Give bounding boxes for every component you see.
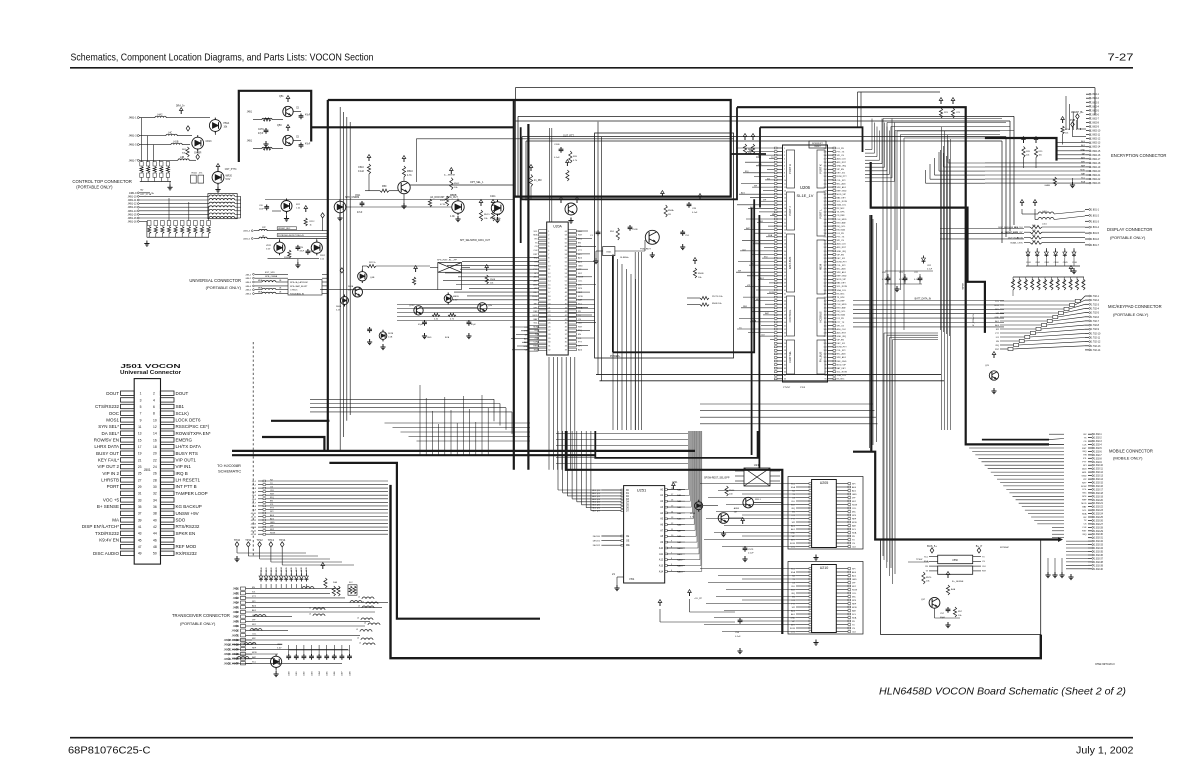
svg-text:120: 120: [824, 290, 827, 292]
svg-text:PGA_RK/T: PGA_RK/T: [640, 248, 651, 251]
svg-text:R202: R202: [320, 255, 326, 257]
svg-text:37: 37: [565, 334, 567, 336]
svg-text:C2N: C2N: [692, 208, 697, 210]
svg-text:MOD: MOD: [852, 522, 857, 524]
svg-text:VIP IN1: VIP IN1: [176, 464, 192, 469]
svg-text:SPI: SPI: [996, 329, 1000, 331]
svg-text:43: 43: [784, 297, 786, 299]
svg-text:AD0: AD0: [995, 324, 1000, 327]
svg-text:3: 3: [784, 155, 785, 157]
svg-text:MDA: MDA: [258, 279, 263, 282]
svg-text:50: 50: [784, 322, 786, 324]
svg-text:AD1_RST: AD1_RST: [837, 246, 847, 249]
svg-text:144: 144: [824, 205, 827, 207]
svg-text:RA14: RA14: [677, 570, 683, 573]
svg-text:11: 11: [548, 269, 550, 271]
svg-text:INT PTT B: INT PTT B: [176, 484, 197, 489]
svg-text:MOS1: MOS1: [106, 418, 119, 423]
svg-text:103: 103: [824, 350, 827, 352]
svg-text:15: 15: [138, 438, 142, 442]
svg-text:TX: TX: [1084, 437, 1087, 439]
svg-text:J4B-13: J4B-13: [231, 644, 239, 647]
svg-text:20: 20: [153, 452, 157, 456]
svg-text:37: 37: [784, 276, 786, 278]
svg-text:J4-1: J4-1: [252, 481, 257, 483]
svg-text:J.302-33: J.302-33: [1094, 545, 1104, 547]
svg-text:J.802-7: J.802-7: [1091, 118, 1099, 120]
svg-text:142: 142: [824, 212, 827, 214]
svg-text:VIP: VIP: [1083, 479, 1087, 481]
svg-text:J.802-20: J.802-20: [1091, 171, 1101, 173]
svg-text:CR42: CR42: [1035, 262, 1040, 264]
svg-text:CLK: CLK: [761, 335, 766, 337]
svg-text:R27MHZ: R27MHZ: [1000, 547, 1009, 549]
svg-text:10: 10: [784, 180, 786, 182]
svg-text:L5: L5: [309, 608, 311, 610]
svg-text:SPI: SPI: [738, 271, 742, 273]
svg-text:SDA: SDA: [1081, 181, 1086, 184]
svg-text:SPI: SPI: [792, 607, 796, 609]
svg-text:TAPER: TAPER: [962, 282, 965, 290]
svg-text:SCLK): SCLK): [176, 411, 190, 416]
svg-text:(PORTABLE ONLY): (PORTABLE ONLY): [206, 285, 242, 290]
svg-text:A0: A0: [660, 488, 664, 491]
svg-text:TX: TX: [852, 624, 855, 626]
svg-text:A11: A11: [659, 553, 664, 556]
svg-text:15: 15: [548, 284, 550, 286]
svg-text:1.0k: 1.0k: [296, 208, 301, 210]
svg-text:151: 151: [824, 180, 827, 182]
svg-text:J.302-4: J.302-4: [1094, 445, 1102, 447]
svg-text:0.1uF: 0.1uF: [927, 269, 933, 271]
svg-text:100: 100: [824, 361, 827, 363]
svg-text:IRQ: IRQ: [791, 508, 795, 510]
svg-text:J.302-12: J.302-12: [1094, 472, 1104, 474]
svg-text:RX/RS232: RX/RS232: [176, 551, 198, 556]
svg-text:MIC/KEYPAD CONNECTOR: MIC/KEYPAD CONNECTOR: [1108, 304, 1162, 309]
svg-text:SPK: SPK: [1082, 496, 1087, 498]
svg-text:52: 52: [784, 329, 786, 331]
svg-text:7: 7: [784, 169, 785, 171]
svg-text:AD1: AD1: [791, 528, 796, 531]
svg-text:SL1E_1V: SL1E_1V: [797, 193, 814, 198]
svg-text:8: 8: [153, 412, 155, 416]
svg-text:R594: R594: [690, 513, 696, 515]
svg-text:L5: L5: [364, 623, 366, 625]
svg-text:Universal Connector: Universal Connector: [120, 370, 181, 376]
svg-text:R50: R50: [382, 185, 387, 188]
svg-text:CS_REF: CS_REF: [837, 300, 846, 302]
svg-text:SPT_SEL/SPKR_DATA_OUT: SPT_SEL/SPKR_DATA_OUT: [460, 239, 491, 242]
svg-text:PLB: PLB: [1070, 118, 1075, 122]
svg-text:P200/DATA_IN: P200/DATA_IN: [290, 292, 304, 295]
svg-text:SPI: SPI: [270, 511, 274, 513]
svg-text:DISC AUDIO: DISC AUDIO: [93, 551, 120, 556]
svg-text:D5: D5: [626, 505, 630, 507]
svg-text:10k: 10k: [958, 615, 962, 617]
svg-text:51: 51: [565, 281, 567, 283]
svg-text:L411: L411: [1042, 224, 1047, 226]
svg-text:J.302-16: J.302-16: [1094, 486, 1104, 488]
svg-text:SDA: SDA: [852, 616, 857, 619]
svg-text:10k: 10k: [454, 187, 458, 189]
svg-text:J.302-30: J.302-30: [1094, 534, 1104, 536]
svg-text:COL_SPI: COL_SPI: [837, 265, 846, 267]
svg-text:SDA_COL: SDA_COL: [837, 289, 848, 292]
svg-text:31: 31: [138, 492, 142, 496]
svg-text:J.802-4: J.802-4: [1091, 106, 1099, 108]
svg-text:CLK: CLK: [533, 250, 538, 252]
svg-text:MOBILE CONNECTOR: MOBILE CONNECTOR: [1109, 449, 1153, 454]
svg-text:J4B-12: J4B-12: [231, 639, 239, 642]
svg-text:C23: C23: [956, 112, 961, 114]
svg-text:CR13: CR13: [206, 141, 213, 143]
svg-text:C510: C510: [358, 166, 364, 169]
svg-text:C511: C511: [355, 195, 361, 197]
svg-text:J.802-17: J.802-17: [1091, 159, 1101, 161]
svg-text:36: 36: [784, 272, 786, 274]
svg-text:MB2B: MB2B: [453, 296, 459, 298]
svg-text:J.302-26: J.302-26: [1094, 521, 1104, 523]
svg-text:25: 25: [548, 323, 550, 325]
svg-text:GND: GND: [427, 337, 432, 339]
svg-text:RA2: RA2: [677, 500, 682, 503]
svg-text:CLK: CLK: [982, 566, 987, 568]
svg-text:RST: RST: [982, 571, 987, 573]
svg-text:5: 5: [140, 405, 142, 409]
svg-text:33uF: 33uF: [300, 251, 305, 253]
svg-text:J4B-6: J4B-6: [245, 294, 251, 296]
svg-text:158: 158: [824, 155, 827, 157]
svg-text:5.6V: 5.6V: [277, 648, 282, 650]
svg-text:+5V_PP: +5V_PP: [694, 598, 703, 600]
svg-text:J.702-8: J.702-8: [1091, 324, 1100, 327]
svg-text:DISP_RSW_CE*: DISP_RSW_CE*: [1006, 232, 1023, 234]
svg-text:SCHEMATIC: SCHEMATIC: [218, 469, 241, 474]
svg-text:J4B1-5: J4B1-5: [129, 144, 138, 147]
svg-text:66: 66: [784, 379, 786, 381]
svg-text:R405: R405: [1045, 279, 1047, 284]
svg-text:MB0B: MB0B: [450, 194, 457, 197]
svg-text:J.302-35: J.302-35: [1094, 552, 1104, 554]
svg-text:96: 96: [825, 375, 827, 377]
svg-text:95: 95: [825, 379, 827, 381]
svg-text:4.7k: 4.7k: [407, 174, 412, 177]
svg-text:EN_SDA: EN_SDA: [837, 314, 846, 317]
svg-text:CTS/RS232: CTS/RS232: [95, 404, 120, 409]
svg-text:32: 32: [153, 492, 157, 496]
svg-text:REF_GND: REF_GND: [837, 276, 847, 278]
svg-text:16: 16: [153, 438, 157, 442]
svg-text:22: 22: [784, 222, 786, 224]
svg-text:COL: COL: [1082, 489, 1087, 491]
svg-text:OOC: OOC: [109, 411, 120, 416]
svg-text:R407: R407: [1058, 279, 1060, 284]
svg-text:150: 150: [824, 183, 827, 185]
svg-text:J.302-5: J.302-5: [1094, 448, 1102, 450]
svg-text:CS: CS: [982, 561, 985, 563]
svg-text:C211: C211: [490, 195, 496, 198]
svg-text:19: 19: [548, 300, 550, 302]
svg-text:38: 38: [153, 512, 157, 516]
svg-text:8: 8: [548, 258, 549, 260]
svg-text:RSSC/PSC CE*): RSSC/PSC CE*): [176, 424, 210, 429]
svg-text:J4B1-13: J4B1-13: [128, 206, 138, 209]
svg-text:VR41: VR41: [266, 567, 268, 572]
svg-text:21: 21: [612, 572, 615, 576]
svg-text:D4: D4: [626, 502, 630, 504]
svg-text:J.302-36: J.302-36: [1094, 555, 1104, 557]
svg-text:IRQ: IRQ: [764, 256, 768, 258]
svg-text:10k: 10k: [926, 581, 930, 583]
svg-text:MA: MA: [112, 518, 119, 523]
svg-text:6: 6: [153, 405, 155, 409]
svg-text:KEY: KEY: [270, 529, 275, 531]
svg-text:39: 39: [565, 326, 567, 328]
svg-text:PTVNT: PTVNT: [783, 387, 791, 389]
svg-text:J.302-18: J.302-18: [1094, 493, 1104, 495]
svg-text:62: 62: [784, 364, 786, 366]
svg-text:4.7k: 4.7k: [573, 160, 578, 162]
svg-text:118: 118: [824, 297, 827, 299]
svg-text:Q29: Q29: [985, 365, 990, 367]
svg-text:156: 156: [824, 162, 827, 164]
svg-text:36: 36: [153, 505, 157, 509]
svg-text:DISPLAY CONNECTOR: DISPLAY CONNECTOR: [1107, 227, 1152, 232]
svg-text:154: 154: [824, 169, 827, 171]
svg-text:110: 110: [824, 325, 827, 327]
svg-text:4: 4: [153, 398, 155, 402]
svg-text:140: 140: [824, 219, 827, 221]
svg-text:SCL: SCL: [852, 529, 857, 531]
svg-text:113: 113: [824, 315, 827, 317]
svg-text:32: 32: [548, 349, 550, 351]
svg-text:J.802-18: J.802-18: [1091, 163, 1101, 165]
svg-text:47pF: 47pF: [305, 144, 311, 146]
svg-text:REF_GND: REF_GND: [837, 190, 847, 192]
svg-text:TX: TX: [925, 571, 928, 573]
svg-text:A14: A14: [659, 570, 664, 573]
svg-text:SPI_CS: SPI_CS: [837, 155, 845, 157]
svg-text:WFL1: WFL1: [755, 499, 762, 501]
svg-text:39: 39: [138, 518, 142, 522]
svg-text:47k: 47k: [199, 173, 203, 175]
svg-text:63: 63: [784, 368, 786, 370]
svg-text:J.302-20: J.302-20: [1094, 500, 1104, 502]
svg-text:J4B-5: J4B-5: [245, 290, 251, 292]
svg-text:PTT_TX: PTT_TX: [837, 151, 845, 153]
svg-text:SCL: SCL: [852, 614, 857, 616]
svg-text:7: 7: [548, 254, 549, 256]
svg-text:CR43: CR43: [1044, 262, 1049, 264]
svg-text:GND_IRQ: GND_IRQ: [837, 251, 847, 253]
svg-text:5: 5: [548, 246, 549, 248]
svg-text:VIP: VIP: [852, 497, 856, 499]
svg-text:R325: R325: [440, 200, 446, 202]
svg-text:J.702-6: J.702-6: [1091, 316, 1100, 319]
svg-text:CLK: CLK: [852, 631, 857, 633]
svg-text:R408: R408: [1064, 279, 1066, 284]
svg-text:A10: A10: [659, 547, 664, 550]
svg-text:R23: R23: [944, 112, 949, 114]
svg-text:J.702-13: J.702-13: [1091, 345, 1101, 348]
svg-text:REF: REF: [1082, 500, 1087, 502]
svg-text:MIC: MIC: [252, 638, 256, 640]
svg-text:50: 50: [565, 284, 567, 286]
svg-text:CLK_MOD: CLK_MOD: [837, 219, 848, 221]
svg-text:R411: R411: [1083, 280, 1085, 284]
svg-text:23: 23: [784, 226, 786, 228]
svg-text:SCL_ROW: SCL_ROW: [837, 286, 847, 288]
svg-text:J4B1-1: J4B1-1: [129, 117, 138, 120]
svg-text:DRA_5+: DRA_5+: [176, 105, 185, 108]
svg-text:10uF: 10uF: [259, 209, 264, 211]
svg-text:J.302-38: J.302-38: [1094, 562, 1104, 564]
svg-text:PU/TS 10k: PU/TS 10k: [712, 296, 723, 298]
svg-text:CS: CS: [852, 543, 856, 545]
svg-text:J.801-5: J.801-5: [1091, 232, 1100, 235]
svg-text:J.702-14: J.702-14: [1091, 349, 1101, 352]
svg-text:0.1uF: 0.1uF: [735, 636, 741, 638]
svg-text:L410: L410: [1042, 211, 1048, 213]
svg-text:127: 127: [824, 265, 827, 267]
svg-text:J4-7: J4-7: [252, 502, 257, 504]
svg-text:Q2b: Q2b: [488, 305, 493, 307]
svg-text:CS_REF: CS_REF: [837, 215, 846, 217]
svg-text:CR45: CR45: [1063, 262, 1068, 264]
svg-text:J.302-15: J.302-15: [1094, 483, 1104, 485]
svg-text:GND: GND: [852, 579, 857, 581]
svg-text:UNSW +9V: UNSW +9V: [176, 511, 199, 516]
svg-text:RESET: RESET: [814, 146, 821, 148]
svg-text:52: 52: [565, 277, 567, 279]
svg-text:R4A: R4A: [333, 581, 338, 584]
svg-text:R22 1k: R22 1k: [369, 262, 377, 264]
svg-text:TX_SPK: TX_SPK: [837, 297, 846, 299]
svg-text:RTS/RS232: RTS/RS232: [176, 524, 200, 529]
svg-text:157: 157: [824, 159, 827, 161]
svg-text:C405: C405: [327, 671, 329, 676]
svg-text:28: 28: [153, 478, 157, 482]
svg-text:Schematics, Component Location: Schematics, Component Location Diagrams,…: [71, 52, 374, 63]
svg-text:R29: R29: [1039, 151, 1044, 153]
svg-text:30: 30: [548, 342, 550, 344]
svg-text:ROW: ROW: [852, 504, 857, 506]
svg-text:26: 26: [153, 472, 157, 476]
svg-text:3: 3: [140, 398, 142, 402]
svg-text:121: 121: [824, 286, 827, 288]
svg-text:VR25: VR25: [277, 644, 283, 646]
svg-text:PTT_TX: PTT_TX: [837, 322, 845, 324]
svg-text:J.302-37: J.302-37: [1094, 558, 1104, 560]
svg-text:SCL: SCL: [924, 556, 929, 558]
svg-text:Q51: Q51: [279, 95, 284, 98]
svg-text:R06B: R06B: [336, 306, 342, 308]
svg-text:13: 13: [548, 277, 550, 279]
svg-text:145: 145: [824, 201, 827, 203]
svg-text:U251: U251: [637, 488, 647, 493]
svg-text:149: 149: [824, 187, 827, 189]
svg-text:48: 48: [565, 292, 567, 294]
svg-text:TXD/RS232: TXD/RS232: [95, 531, 120, 536]
svg-text:48: 48: [153, 545, 157, 549]
svg-text:LHRX DATA: LHRX DATA: [94, 444, 119, 449]
svg-text:159: 159: [824, 151, 827, 153]
svg-text:AD0_CLK: AD0_CLK: [837, 243, 847, 246]
svg-text:J4B1-9: J4B1-9: [129, 192, 137, 195]
svg-text:SDA: SDA: [852, 531, 857, 534]
svg-text:0.1uF: 0.1uF: [899, 279, 905, 281]
svg-text:D2: D2: [626, 496, 630, 498]
svg-text:J4-10: J4-10: [251, 513, 257, 515]
svg-text:U206: U206: [800, 185, 811, 190]
svg-text:55: 55: [784, 340, 786, 342]
svg-text:61: 61: [784, 361, 786, 363]
svg-text:SCL: SCL: [533, 323, 538, 325]
svg-text:U550: U550: [952, 559, 958, 562]
svg-text:KG BACKUP: KG BACKUP: [176, 504, 202, 509]
svg-text:R406: R406: [1051, 279, 1053, 284]
svg-text:30: 30: [784, 251, 786, 253]
svg-text:LOCK DET6: LOCK DET6: [176, 418, 202, 423]
svg-text:CLK: CLK: [791, 586, 796, 588]
svg-text:J.302-11: J.302-11: [1094, 469, 1103, 471]
svg-text:RST_BAT: RST_BAT: [837, 307, 847, 310]
svg-text:C408: C408: [349, 671, 351, 676]
svg-text:BUSY OUT: BUSY OUT: [96, 451, 119, 456]
svg-text:KEY_IO1: KEY_IO1: [837, 343, 847, 345]
svg-text:A12: A12: [659, 559, 664, 562]
svg-text:(PORTABLE ONLY): (PORTABLE ONLY): [1113, 312, 1149, 317]
svg-text:26: 26: [548, 326, 550, 328]
svg-text:64: 64: [784, 371, 786, 373]
svg-text:153: 153: [824, 173, 827, 175]
svg-text:16.8MHz: 16.8MHz: [620, 257, 629, 259]
svg-text:34: 34: [565, 346, 567, 348]
svg-text:19: 19: [784, 212, 786, 214]
svg-text:BAT: BAT: [578, 299, 583, 302]
svg-text:11: 11: [784, 183, 786, 185]
svg-text:IRQ: IRQ: [791, 593, 795, 595]
svg-text:32: 32: [784, 258, 786, 260]
svg-text:36: 36: [565, 338, 567, 340]
svg-text:CNT_PTT4: CNT_PTT4: [225, 169, 237, 171]
svg-text:J4-11: J4-11: [251, 517, 257, 519]
svg-text:SPK: SPK: [1081, 161, 1086, 163]
svg-text:49: 49: [138, 552, 142, 556]
svg-text:B+ SENSE: B+ SENSE: [97, 504, 119, 509]
svg-text:TP13: TP13: [268, 538, 275, 542]
svg-text:R212: R212: [310, 221, 316, 223]
svg-text:KEY: KEY: [852, 501, 857, 503]
svg-text:46: 46: [153, 538, 157, 542]
svg-text:L4B: L4B: [180, 157, 185, 159]
svg-text:SDA: SDA: [791, 486, 796, 489]
svg-text:R43: R43: [1032, 240, 1037, 242]
svg-text:(MOBILE ONLY): (MOBILE ONLY): [1113, 456, 1143, 461]
svg-text:TP10: TP10: [234, 538, 241, 542]
svg-text:EN: EN: [270, 501, 273, 503]
svg-text:108: 108: [824, 332, 827, 334]
svg-text:SDA: SDA: [749, 149, 754, 152]
svg-text:47uF: 47uF: [357, 212, 363, 214]
svg-text:148: 148: [824, 190, 827, 192]
svg-text:CLK_MOD: CLK_MOD: [837, 304, 848, 306]
svg-text:BUSY RTS: BUSY RTS: [176, 451, 198, 456]
svg-text:R404: R404: [1038, 279, 1040, 284]
svg-text:RA12: RA12: [677, 559, 683, 562]
svg-text:L5: L5: [356, 629, 358, 631]
